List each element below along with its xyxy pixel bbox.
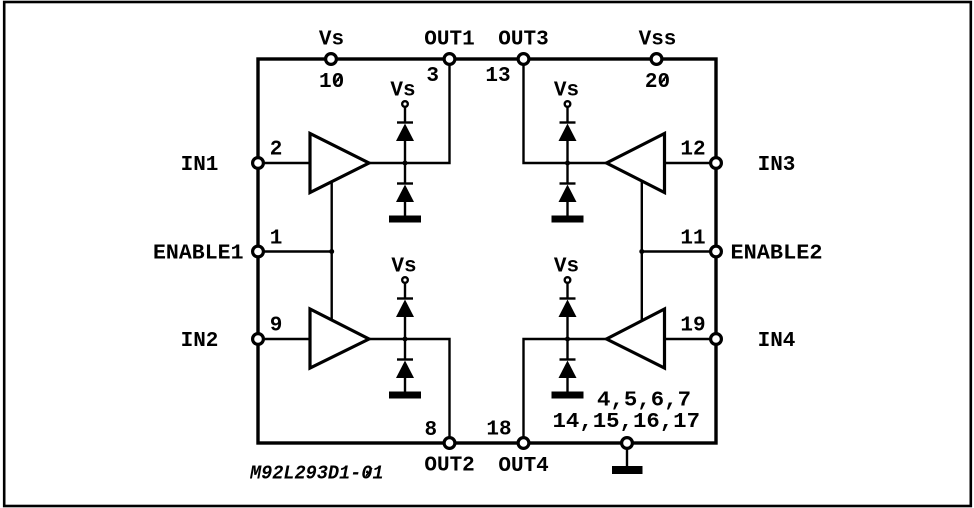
svg-text:OUT3: OUT3	[498, 29, 548, 52]
clamp diode pair D1/D2 with Vs terminal (top-left)	[389, 101, 421, 222]
svg-text:IN4: IN4	[758, 330, 796, 353]
svg-text:14,15,16,17: 14,15,16,17	[553, 411, 701, 434]
pin terminal IN1 pin 2	[253, 158, 264, 169]
svg-text:ENABLE2: ENABLE2	[731, 243, 823, 266]
svg-text:19: 19	[680, 315, 705, 338]
slash of zero in 10	[335, 75, 342, 85]
pin terminal ENABLE2 pin 11	[711, 246, 722, 257]
pin terminal OUT2 pin 8	[444, 438, 455, 449]
buffer A1	[310, 134, 369, 193]
svg-text:IN3: IN3	[758, 154, 796, 177]
svg-text:1: 1	[270, 228, 283, 251]
junction dot ENABLE2 bus	[639, 249, 644, 254]
svg-text:8: 8	[424, 419, 437, 442]
wire ENABLE2 vertical bus (A3 enable to A4 enable)	[641, 181, 643, 321]
junction dot A4 output / diodes	[565, 337, 570, 342]
buffer A2	[310, 309, 369, 368]
pin terminal ENABLE1 pin 1	[253, 246, 264, 257]
pin terminal Vs pin 10	[326, 54, 337, 65]
svg-text:M92L293D1-01: M92L293D1-01	[249, 463, 383, 485]
clamp diode pair D5/D6 with Vs terminal (top-right)	[552, 101, 584, 222]
svg-text:Vs: Vs	[554, 256, 579, 279]
pin terminal OUT3 pin 13	[518, 54, 529, 65]
svg-text:OUT2: OUT2	[424, 455, 474, 478]
wire A2 output to OUT2	[369, 339, 450, 443]
pin terminal IN2 pin 9	[253, 334, 264, 345]
svg-text:3: 3	[426, 65, 439, 88]
junction dot A1 output / diodes	[403, 161, 408, 166]
svg-text:Vs: Vs	[390, 80, 415, 103]
pin terminal IN3 pin 12	[711, 158, 722, 169]
svg-text:Vss: Vss	[639, 29, 677, 52]
wire ENABLE1 horizontal (pin 1 to enable bus)	[258, 250, 332, 252]
clamp diode pair D3/D4 with Vs terminal (bottom-left)	[389, 277, 421, 398]
wire IN1 (pin 2 to buffer A1 input)	[258, 162, 311, 164]
wire A4 output to OUT4	[524, 339, 608, 443]
clamp diode pair D7/D8 with Vs terminal (bottom-right)	[552, 277, 584, 398]
wire IN4 (pin 19 to buffer A4 input)	[664, 338, 716, 340]
wire A3 output to OUT3	[524, 59, 608, 163]
svg-text:13: 13	[485, 65, 510, 88]
svg-text:OUT1: OUT1	[424, 29, 474, 52]
wire ENABLE2 horizontal (pin 11 to enable bus)	[642, 250, 716, 252]
svg-text:Vs: Vs	[391, 256, 416, 279]
buffer A3	[607, 134, 665, 193]
junction dot ENABLE1 bus	[329, 249, 334, 254]
svg-text:IN2: IN2	[181, 330, 219, 353]
buffer A4	[607, 309, 665, 368]
junction dot A3 output / diodes	[565, 161, 570, 166]
svg-text:12: 12	[680, 139, 705, 162]
wire IN3 (pin 12 to buffer A3 input)	[664, 162, 716, 164]
svg-text:ENABLE1: ENABLE1	[153, 243, 244, 266]
svg-text:OUT4: OUT4	[498, 455, 548, 478]
slash of zero in 20	[661, 75, 668, 85]
wire ENABLE1 vertical bus (A1 enable to A2 enable)	[331, 182, 333, 322]
svg-text:Vs: Vs	[319, 29, 344, 52]
pin terminal IN4 pin 19	[711, 334, 722, 345]
chip boundary rectangle (device outline)	[258, 59, 716, 443]
pin terminal OUT4 pin 18	[518, 438, 529, 449]
svg-text:Vs: Vs	[554, 80, 579, 103]
svg-text:11: 11	[680, 228, 705, 251]
wire A1 output to OUT1	[369, 59, 450, 163]
junction dot A2 output / diodes	[403, 337, 408, 342]
svg-text:4,5,6,7: 4,5,6,7	[597, 390, 691, 413]
pin terminal GND	[622, 438, 633, 449]
pin terminal OUT1 pin 3	[444, 54, 455, 65]
pin terminal Vss pin 20	[651, 54, 662, 65]
svg-text:IN1: IN1	[181, 154, 219, 177]
svg-text:2: 2	[270, 139, 283, 162]
svg-text:18: 18	[486, 419, 511, 442]
svg-text:9: 9	[270, 315, 283, 338]
ground symbol (pins 4,5,6,7,14,15,16,17)	[612, 443, 643, 474]
wire IN2 (pin 9 to buffer A2 input)	[258, 338, 311, 340]
slash of zero in figure code	[366, 468, 372, 476]
